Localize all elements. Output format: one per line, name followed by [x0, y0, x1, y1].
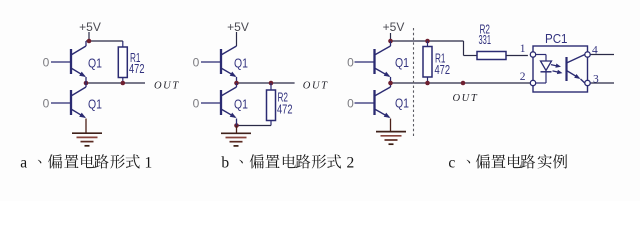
svg-text:+5V: +5V — [383, 20, 405, 34]
svg-text:+5V: +5V — [227, 20, 249, 34]
svg-text:0: 0 — [43, 55, 50, 69]
svg-text:OUT: OUT — [303, 80, 329, 91]
svg-text:4: 4 — [592, 45, 598, 57]
svg-text:PC1: PC1 — [545, 31, 568, 46]
svg-text:0: 0 — [193, 96, 200, 110]
svg-text:472: 472 — [435, 63, 451, 77]
svg-text:0: 0 — [193, 55, 200, 69]
svg-text:331: 331 — [479, 33, 492, 47]
svg-text:b: b — [221, 154, 229, 171]
svg-text:1: 1 — [145, 154, 153, 171]
svg-text:0: 0 — [43, 96, 50, 110]
svg-text:c: c — [448, 154, 455, 171]
svg-text:3: 3 — [593, 74, 599, 86]
svg-text:472: 472 — [277, 102, 293, 116]
svg-text:OUT: OUT — [453, 93, 479, 104]
svg-text:1: 1 — [520, 43, 526, 55]
svg-text:472: 472 — [129, 62, 145, 76]
svg-text:2: 2 — [520, 71, 526, 83]
svg-text:Q1: Q1 — [234, 98, 248, 112]
svg-text:Q1: Q1 — [88, 98, 102, 112]
svg-text:0: 0 — [347, 55, 354, 69]
svg-text:a: a — [20, 154, 27, 171]
svg-text:Q1: Q1 — [395, 97, 409, 111]
svg-text:Q1: Q1 — [395, 56, 409, 70]
svg-text:2: 2 — [347, 154, 355, 171]
svg-text:0: 0 — [347, 96, 354, 110]
svg-text:Q1: Q1 — [88, 57, 102, 71]
svg-text:OUT: OUT — [154, 80, 180, 91]
svg-text:+5V: +5V — [79, 20, 101, 34]
svg-text:Q1: Q1 — [234, 57, 248, 71]
